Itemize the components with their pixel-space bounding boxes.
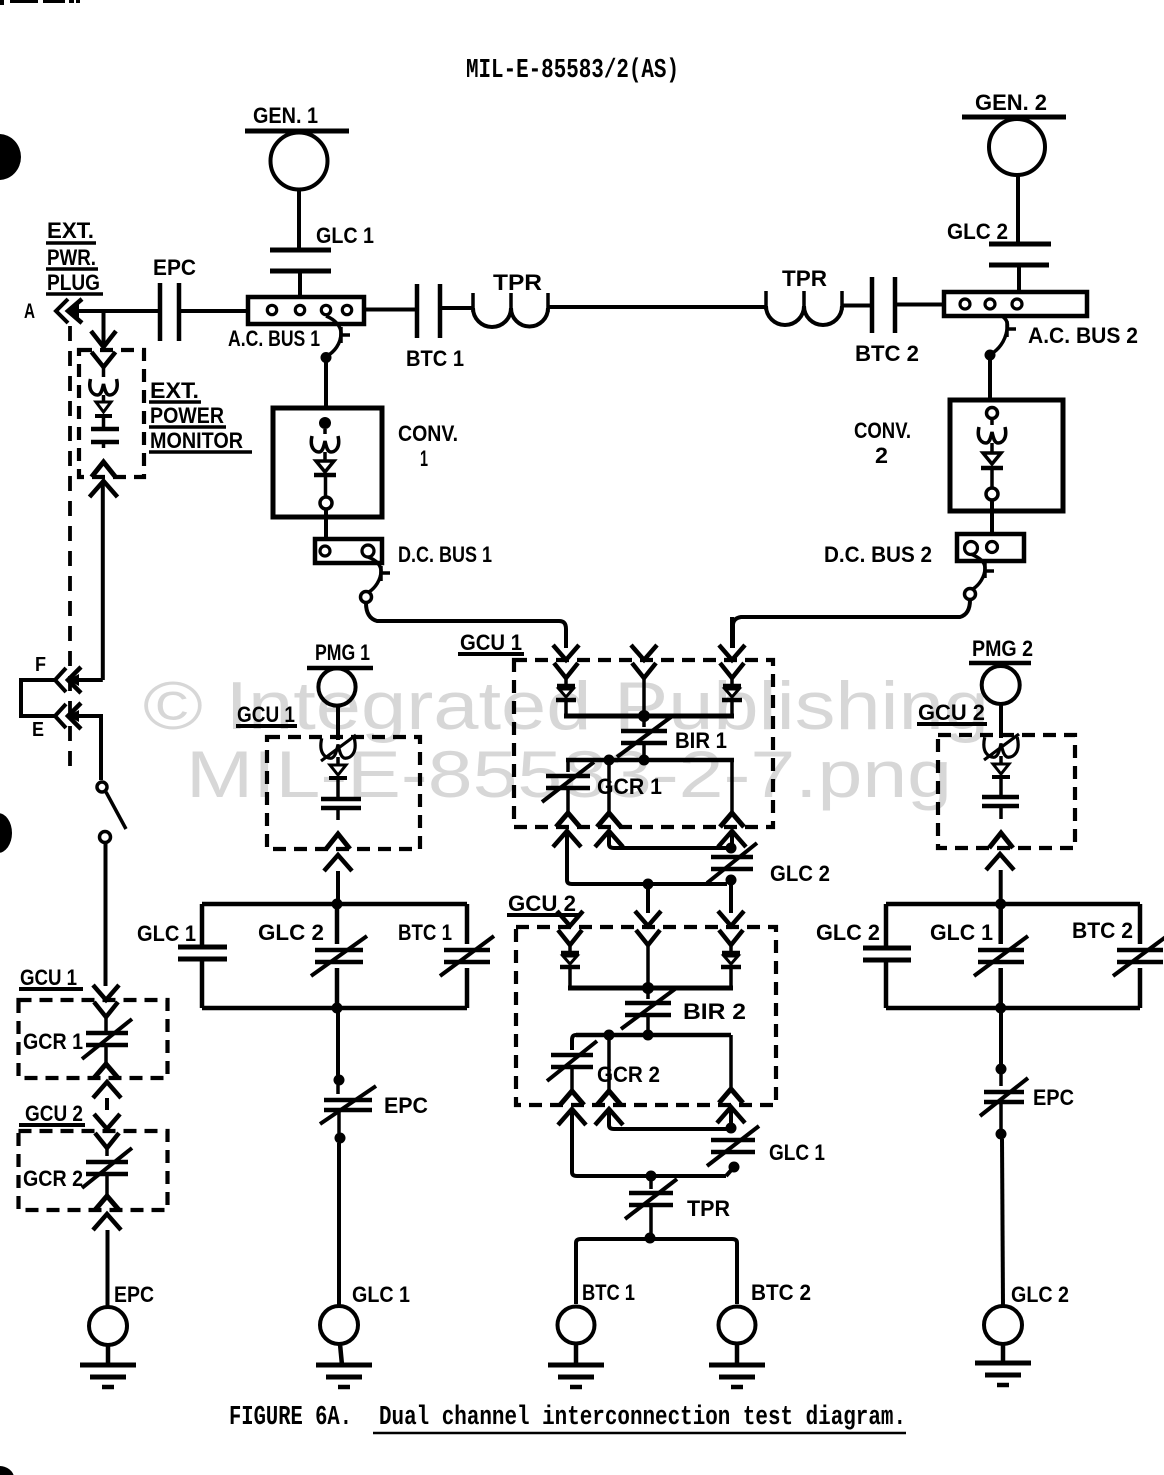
junction (604, 755, 615, 766)
scan artifact bottom-left blob (0, 1466, 14, 1475)
arrow out mid (595, 831, 623, 847)
junction (335, 1133, 346, 1144)
svg-text:A.C. BUS 1: A.C. BUS 1 (228, 326, 320, 351)
relay TPR (mid) (649, 1176, 653, 1189)
arrow into box left (553, 645, 579, 660)
svg-text:GCU 2: GCU 2 (918, 700, 985, 725)
conv2 terminal (987, 408, 998, 419)
left input funnel (558, 930, 582, 945)
wire CONV1 to DC BUS 1 (324, 509, 328, 539)
wire (1017, 265, 1021, 292)
svg-text:TPR: TPR (782, 266, 827, 291)
svg-text:GLC 1: GLC 1 (316, 223, 374, 248)
wire monitor to F (101, 483, 105, 680)
pmg1 diode (330, 765, 346, 775)
connector E receptacle (55, 704, 66, 728)
junction (334, 1075, 345, 1086)
wire (642, 678, 646, 716)
wire DC bus 1 to GCU 1 network (366, 603, 566, 648)
wire (336, 706, 340, 740)
wire mid output (607, 760, 611, 813)
left edge wire lower (200, 959, 205, 1008)
mid output funnel (597, 813, 621, 827)
ground (80, 1363, 136, 1368)
contact EPC (external power contactor) (158, 283, 163, 341)
right input funnel (719, 930, 743, 945)
junction (729, 1162, 740, 1173)
left network box bottom wire (202, 1006, 467, 1011)
right edge wire (1138, 904, 1143, 944)
wire TPR to TPR (548, 305, 766, 309)
monitor diode (96, 402, 111, 412)
left output funnel (556, 813, 580, 827)
GCU 1 dashed box (mid) (514, 660, 773, 827)
contact EPC (right) (999, 1074, 1003, 1086)
left network box top wire (202, 902, 467, 907)
scan artifact left blob 1 (0, 134, 21, 180)
wire BTC2 to AC bus 2 (895, 303, 944, 307)
bus wire inside GCU 2 (568, 986, 733, 991)
CONV. 1 converter box (273, 408, 382, 517)
svg-text:GLC 1: GLC 1 (769, 1140, 825, 1165)
connector F pin arrow (68, 667, 81, 693)
contact GLC 2 (generator line contactor) (989, 242, 1051, 247)
arrow into box mid (635, 911, 661, 926)
svg-text:A.C. BUS 2: A.C. BUS 2 (1028, 323, 1138, 348)
wire (730, 701, 734, 716)
arrow out left (558, 1109, 586, 1125)
svg-text:BTC 2: BTC 2 (751, 1280, 811, 1305)
wire (999, 704, 1003, 738)
tick (379, 566, 383, 581)
arrow out right (717, 1107, 745, 1123)
svg-text:GEN. 2: GEN. 2 (975, 90, 1047, 115)
svg-text:GCR 2: GCR 2 (23, 1166, 83, 1191)
wire (298, 271, 302, 297)
junction (985, 350, 996, 361)
right output funnel (720, 813, 744, 827)
junction (646, 1171, 657, 1182)
svg-text:MIL-E-85583/2(AS): MIL-E-85583/2(AS) (466, 56, 679, 86)
arrow out (986, 854, 1014, 870)
wire AC bus1 to BTC1 (364, 308, 417, 312)
svg-text:D.C. BUS 1: D.C. BUS 1 (398, 542, 492, 567)
junction (726, 1123, 737, 1134)
left input funnel (554, 663, 578, 678)
junction (996, 1064, 1007, 1075)
junction (642, 982, 654, 994)
svg-text:BTC 1: BTC 1 (582, 1280, 635, 1305)
junction (643, 879, 654, 890)
svg-text:EPC: EPC (153, 255, 196, 280)
wire right output (729, 1035, 733, 1087)
GCU 2 output funnel (95, 1196, 119, 1210)
junction (332, 899, 343, 910)
junction (643, 1030, 654, 1041)
feeder tick (339, 327, 343, 343)
wire (735, 1343, 740, 1365)
junction (639, 755, 650, 766)
switch contact (100, 832, 111, 843)
wire bus 2 to CONV 2 (988, 355, 992, 400)
wire left funnel down to TPR row (572, 1111, 726, 1176)
pmg2 output funnel (989, 833, 1013, 848)
contact GCR 1 (86, 1031, 128, 1036)
wire row (566, 758, 734, 763)
svg-text:BTC 1: BTC 1 (406, 346, 464, 371)
svg-text:BTC 1: BTC 1 (398, 920, 452, 945)
arrow out (324, 855, 352, 871)
svg-text:TPR: TPR (493, 270, 542, 295)
svg-text:BIR 1: BIR 1 (675, 728, 727, 753)
wire (106, 1345, 111, 1365)
junction (996, 1129, 1007, 1140)
right network box top wire (886, 902, 1140, 907)
contact GCR 2 (86, 1160, 128, 1165)
wire (999, 777, 1003, 795)
wire TPR to BTC2 (842, 304, 872, 308)
arrow into box left (557, 911, 583, 926)
right network box bottom wire (886, 1006, 1140, 1011)
monitor output funnel (92, 462, 116, 477)
svg-text:GLC 2: GLC 2 (816, 920, 880, 945)
wire BTC1 to TPR (440, 306, 473, 310)
A.C. BUS 1 busbar (248, 297, 364, 324)
svg-text:BTC 2: BTC 2 (855, 341, 919, 366)
conv2 coil (978, 427, 1005, 443)
contact BTC 2 (right net) (1117, 948, 1163, 953)
terminal (361, 592, 372, 603)
wire (1016, 175, 1020, 246)
svg-text:GLC 2: GLC 2 (770, 861, 830, 886)
contact GLC 1 (interlock) (711, 1138, 755, 1143)
caption underline (373, 1432, 906, 1435)
wire row (576, 1033, 731, 1038)
dc bus 2 tail curve (971, 554, 985, 589)
svg-text:BIR 2: BIR 2 (683, 999, 746, 1024)
current transformer TPR (right) (764, 291, 768, 310)
pmg2 coil with slash (984, 737, 1018, 757)
left diode (561, 951, 579, 956)
GCU 1 dashed box (far left) (19, 1000, 168, 1078)
D.C. BUS 1 busbar (315, 539, 382, 563)
wire (340, 1344, 342, 1365)
contact GLC 2 (left net) (315, 948, 363, 953)
junction (995, 899, 1006, 910)
wire A to EPC (68, 309, 160, 313)
wire (102, 416, 106, 427)
wire mid output (607, 1035, 611, 1090)
arrow out mid (595, 1109, 623, 1125)
svg-text:MONITOR: MONITOR (150, 428, 243, 453)
svg-text:PLUG: PLUG (47, 270, 100, 295)
svg-text:CONV.: CONV. (854, 418, 911, 443)
wire mid funnel to GLC 2 contact (609, 833, 727, 848)
arrow into GCU 1 box (93, 985, 119, 1000)
monitor input funnel (92, 352, 116, 367)
wire (729, 968, 733, 988)
conv1 terminal (320, 497, 332, 509)
svg-text:GCU 1: GCU 1 (237, 702, 295, 727)
GLC 1 ground circle (320, 1306, 358, 1344)
pmg1 output funnel (326, 834, 350, 849)
arrow out of GCU 2 box (93, 1214, 121, 1230)
BTC 2 ground circle (719, 1307, 756, 1344)
svg-text:GCU 1: GCU 1 (20, 965, 77, 990)
wire right funnel to GLC 2 (730, 833, 734, 848)
ground (316, 1363, 372, 1368)
left edge wire lower (884, 960, 889, 1008)
svg-text:GLC 1: GLC 1 (137, 921, 196, 946)
svg-text:2: 2 (875, 443, 888, 468)
arrow into GCU 2 box (94, 1114, 120, 1129)
GCU 2 dashed box (mid) (516, 927, 776, 1105)
svg-text:BTC 2: BTC 2 (1072, 918, 1133, 943)
left output funnel (560, 1091, 584, 1105)
junction (332, 1003, 343, 1014)
wire down to GLC 2 circle (1002, 1139, 1003, 1306)
current transformer TPR (left) (471, 293, 475, 312)
svg-text:GCU 2: GCU 2 (25, 1101, 83, 1126)
svg-text:GCU 1: GCU 1 (460, 630, 522, 655)
conv2 terminal (986, 488, 998, 500)
D.C. BUS 2 busbar (957, 534, 1024, 561)
wire (568, 968, 572, 988)
wire (999, 1008, 1003, 1066)
wire EPC to AC bus 1 (179, 309, 248, 313)
pmg2 capacitor (982, 795, 1019, 800)
generator G2 top bar (962, 115, 1066, 120)
GCU 1 output funnel (94, 1064, 118, 1078)
arrow into box right (730, 617, 734, 648)
contact BTC 1 (left net) (444, 948, 490, 953)
svg-text:GLC 1: GLC 1 (930, 920, 993, 945)
left diode (557, 684, 575, 689)
conv1 terminal (319, 417, 331, 429)
connector F receptacle (55, 668, 66, 692)
center wire (998, 904, 1003, 944)
wire right output (730, 760, 734, 813)
svg-text:FIGURE 6A.: FIGURE 6A. (229, 1403, 352, 1433)
svg-text:POWER: POWER (150, 403, 224, 428)
bus 2 feeder curve (991, 316, 1007, 354)
generator G2 (989, 119, 1045, 175)
scan artifact top edge dashes (10, 0, 38, 3)
junction (321, 352, 332, 363)
svg-text:A: A (24, 300, 35, 323)
contact BTC 1 (bus tie contactor) (415, 284, 420, 338)
svg-text:GCR 1: GCR 1 (23, 1029, 83, 1054)
wire (336, 808, 340, 820)
junction (638, 710, 650, 722)
contact BTC 2 (bus tie contactor) (870, 277, 875, 333)
feeder tick (1005, 321, 1009, 337)
svg-text:PMG 1: PMG 1 (315, 640, 370, 665)
left edge wire (884, 904, 889, 948)
svg-text:GLC 2: GLC 2 (947, 219, 1008, 244)
generator G1 top bar (245, 129, 349, 134)
wire (324, 475, 328, 497)
svg-text:EPC: EPC (384, 1093, 428, 1118)
wire DC bus 2 to GCU 1 network (733, 600, 970, 648)
arrow out left (553, 831, 581, 847)
wire (646, 945, 650, 988)
wire (102, 442, 106, 448)
CONV. 2 converter box (950, 400, 1063, 511)
arrow out of GCU 1 box (93, 1082, 121, 1098)
svg-text:E: E (32, 719, 44, 741)
svg-text:GLC 2: GLC 2 (258, 920, 324, 945)
generator G1 (271, 133, 328, 190)
conv1 coil (311, 436, 338, 452)
svg-text:CONV.: CONV. (398, 421, 458, 446)
generator PMG 1 (318, 668, 355, 705)
EPC ground circle (89, 1307, 127, 1345)
arrow into box right (718, 911, 744, 926)
ground (548, 1363, 604, 1368)
wire (574, 1343, 579, 1365)
arrow down into monitor (102, 311, 106, 345)
contact GLC 1 (right net) (978, 948, 1024, 953)
wire F arrow to vertical (68, 678, 103, 682)
mid output funnel (597, 1091, 621, 1105)
junction (726, 843, 737, 854)
wire (336, 778, 340, 797)
wire bus 1 to CONV 1 (324, 357, 328, 408)
dc bus 1 tail curve (368, 557, 381, 592)
A.C. BUS 2 busbar (944, 292, 1087, 316)
arrow out right (718, 831, 746, 847)
wire (990, 468, 994, 488)
switch blade (106, 792, 126, 829)
link wire (729, 880, 731, 884)
center wire lower (335, 968, 340, 1008)
wire down to GLC 1 circle (337, 1143, 341, 1306)
wire (297, 189, 301, 252)
pmg1 capacitor (321, 797, 361, 802)
pmg1 coil with slash (321, 738, 355, 758)
svg-text:1: 1 (420, 446, 428, 471)
contact GLC 1 (generator line contactor) (270, 248, 331, 253)
BTC 1 ground circle (558, 1307, 595, 1344)
scan artifact left blob 2 (0, 813, 12, 853)
monitor output arrow (90, 481, 118, 497)
svg-text:GCR 1: GCR 1 (597, 774, 662, 799)
svg-text:EPC: EPC (114, 1282, 154, 1307)
wire left funnel down and right (567, 833, 727, 884)
dashed line plug to F/E (68, 326, 72, 767)
junction (645, 1233, 656, 1244)
right output funnel (719, 1089, 743, 1103)
plug pin arrow (68, 299, 82, 323)
mid input funnel (632, 663, 656, 678)
connector E pin arrow (68, 703, 81, 729)
bus wire inside GCU 1 (564, 714, 734, 719)
generator PMG 2 (982, 666, 1020, 704)
right input funnel (720, 663, 744, 678)
monitor capacitor (91, 427, 119, 432)
arrow into box mid (631, 645, 657, 660)
svg-text:Dual channel interconnection t: Dual channel interconnection test diagra… (379, 1403, 906, 1433)
ground (975, 1361, 1031, 1366)
GCU 2 dashed box (far left) (19, 1131, 168, 1210)
relay GCR 1 (566, 760, 570, 772)
junction (726, 875, 737, 886)
GLC 2 ground circle (984, 1306, 1022, 1344)
junction (995, 1003, 1006, 1014)
svg-text:EXT.: EXT. (150, 378, 199, 403)
EXT POWER MONITOR dashed box (79, 350, 144, 477)
center wire lower (998, 968, 1003, 1008)
capacitor GLC 1 (left net) (178, 945, 227, 950)
junction (604, 1030, 615, 1041)
svg-text:D.C. BUS 2: D.C. BUS 2 (824, 542, 932, 567)
capacitor GLC 2 (right net) (863, 946, 911, 951)
contact EPC (mid left) (336, 1085, 340, 1094)
wire F loop to E (21, 680, 55, 716)
relay BIR 1 (642, 716, 646, 727)
relay BIR 2 (646, 988, 650, 999)
wire (564, 701, 568, 716)
svg-text:GLC 1: GLC 1 (352, 1282, 410, 1307)
svg-text:TPR: TPR (687, 1196, 730, 1221)
right edge wire lower (1138, 968, 1143, 1008)
switch pole (97, 782, 107, 792)
wire E to switch (68, 716, 101, 780)
pmg2 diode (993, 764, 1009, 774)
wire (999, 806, 1003, 819)
conv1 diode (316, 461, 334, 472)
left edge wire (200, 904, 205, 947)
relay GCR 2 (572, 1035, 576, 1050)
svg-text:GEN. 1: GEN. 1 (253, 103, 318, 128)
right edge wire lower (465, 968, 470, 1008)
wire to network box (336, 871, 340, 904)
svg-text:EXT.: EXT. (47, 218, 94, 243)
wire GLC2 down to GCU 2 network (729, 880, 733, 913)
right diode (722, 951, 740, 956)
wire to network box (999, 870, 1003, 904)
svg-text:GLC 2: GLC 2 (1011, 1282, 1069, 1307)
svg-text:GCR 2: GCR 2 (597, 1062, 660, 1087)
wire bottom row to BTC circles (576, 1239, 737, 1304)
plug receptacle chevron (56, 299, 68, 323)
svg-text:PMG 2: PMG 2 (972, 636, 1033, 661)
GCU 1 dashed box (pmg) (267, 737, 420, 849)
wire (105, 1098, 109, 1110)
wire CONV2 to DC BUS 2 (990, 500, 994, 534)
wire down to EPC ground circle (106, 1230, 110, 1307)
GCU 2 dashed box (pmg) (938, 735, 1075, 848)
svg-text:PWR.: PWR. (47, 245, 96, 270)
GCU 1 input funnel (94, 1002, 118, 1017)
monitor coil (90, 379, 117, 395)
tick (983, 563, 987, 578)
terminal (965, 589, 976, 600)
svg-text:GCU 2: GCU 2 (508, 891, 576, 916)
wire (1001, 1344, 1006, 1363)
mid input funnel (636, 930, 660, 945)
bus 1 feeder curve (326, 316, 341, 356)
wire mid funnel down to GLC 1 row (609, 1111, 728, 1129)
conv2 diode (983, 453, 1001, 464)
link wire (726, 1167, 734, 1176)
right edge wire (465, 904, 470, 944)
GCU 2 input funnel (95, 1133, 119, 1148)
wire switch down to GCU 1 (104, 843, 108, 986)
wire right funnel to junction (729, 1109, 733, 1128)
wire into GCU 2 mid (646, 884, 650, 913)
